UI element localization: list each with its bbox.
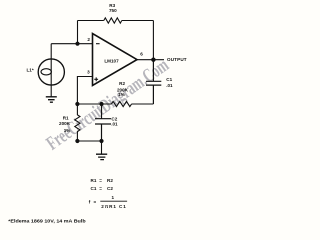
svg-text:LM107: LM107 xyxy=(104,59,119,64)
resistor R2 xyxy=(111,101,131,106)
wire lamp vertical xyxy=(50,44,52,97)
lamp L1 circle xyxy=(38,59,64,85)
wire output vertical xyxy=(152,21,154,60)
svg-text:2: 2 xyxy=(87,37,90,42)
wire feedback vertical left xyxy=(77,21,79,44)
capacitor C1 xyxy=(146,60,161,104)
op-amp U1 triangle xyxy=(93,34,138,86)
wire positive feedback horizontal right xyxy=(132,103,154,105)
minus sign pin2 xyxy=(96,43,100,45)
resistor R1 xyxy=(75,104,80,141)
svg-text:*Eldema 1869 10V, 14 mA Bulb: *Eldema 1869 10V, 14 mA Bulb xyxy=(8,219,86,224)
svg-text:.01: .01 xyxy=(166,83,173,88)
wire lamp to inverting input xyxy=(51,43,92,45)
resistor R3 xyxy=(104,18,122,23)
wire positive feedback horizontal left xyxy=(77,103,111,105)
svg-text:200K: 200K xyxy=(59,121,71,126)
svg-text:R1: R1 xyxy=(63,115,69,120)
svg-text:C2: C2 xyxy=(107,186,113,191)
plus sign pin3 xyxy=(94,77,98,81)
wire top rail right segment xyxy=(122,20,154,22)
svg-text:R2: R2 xyxy=(119,81,125,86)
svg-text:OUTPUT: OUTPUT xyxy=(167,57,187,62)
watermark FreeCircuitDiagram.Com xyxy=(43,55,173,155)
node output junction xyxy=(151,58,155,62)
ground lamp xyxy=(46,97,57,102)
svg-text:=: = xyxy=(94,200,97,205)
svg-text:C1: C1 xyxy=(91,186,97,191)
svg-text:750: 750 xyxy=(109,8,117,13)
svg-text:6: 6 xyxy=(140,51,143,56)
svg-text:L1*: L1* xyxy=(27,68,34,73)
svg-text:2πR1 C1: 2πR1 C1 xyxy=(101,204,126,209)
node C2 top junction xyxy=(99,102,103,106)
capacitor C2 xyxy=(95,104,111,141)
svg-text:R1: R1 xyxy=(91,178,97,183)
lamp L1 filament xyxy=(41,69,51,75)
svg-text:.01: .01 xyxy=(111,121,118,126)
node pin2 junction xyxy=(75,42,79,46)
node pin3 junction xyxy=(75,102,79,106)
wire ground rail bottom xyxy=(77,141,101,154)
svg-text:1: 1 xyxy=(112,195,115,200)
wire pin6 output xyxy=(137,59,164,61)
svg-text:1%: 1% xyxy=(118,92,125,97)
svg-text:=: = xyxy=(99,186,102,191)
svg-text:C1: C1 xyxy=(166,77,172,82)
svg-text:R2: R2 xyxy=(107,178,113,183)
ground C2 xyxy=(96,154,107,159)
svg-text:3: 3 xyxy=(87,70,90,75)
svg-text:1%: 1% xyxy=(64,128,71,133)
node R1 bottom junction xyxy=(75,139,79,143)
svg-text:=: = xyxy=(99,178,102,183)
node C2 bottom junction xyxy=(99,139,103,143)
wire top rail left segment xyxy=(78,20,104,22)
wire pin3 xyxy=(77,77,92,105)
svg-text:f: f xyxy=(89,200,91,205)
